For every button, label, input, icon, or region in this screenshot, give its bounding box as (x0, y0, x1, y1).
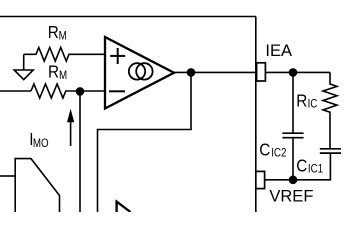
node C (IEA net junction) (289, 68, 298, 77)
label RM upper (48, 22, 67, 43)
node D (VREF net junction) (289, 176, 298, 185)
svg-text:IC1: IC1 (308, 163, 323, 176)
capacitor CIC2 (282, 133, 303, 138)
svg-text:IC: IC (308, 98, 318, 111)
IC boundary right edge (255, 17, 257, 213)
pin IEA (257, 63, 266, 81)
wire (inverting input from left edge) (0, 90, 31, 92)
current arrow IMO (67, 109, 74, 146)
svg-text:R: R (48, 22, 59, 42)
op-amp U2 (partial, bottom) (117, 202, 131, 212)
svg-text:VREF: VREF (269, 187, 313, 205)
wire (op-amp output) (174, 71, 256, 73)
svg-text:IEA: IEA (265, 42, 292, 60)
ground (14, 54, 33, 79)
svg-text:C: C (259, 139, 270, 159)
wire (CIC1 bottom lead to node D) (293, 154, 330, 180)
node A (junction of R2 / feedback) (76, 87, 85, 96)
op-amp U1 (gm amplifier) (105, 37, 174, 109)
label IMO (29, 129, 48, 150)
svg-text:M: M (59, 30, 67, 43)
wire (feedback: output down, left, down to lower op-amp) (98, 72, 192, 212)
wire (node C down to CIC2) (292, 72, 294, 133)
wire (CIC2 bottom lead) (292, 138, 294, 180)
svg-text:R: R (296, 90, 307, 110)
label CIC2 (259, 139, 286, 159)
label RM lower (48, 61, 67, 82)
svg-text:R: R (48, 61, 59, 81)
wire (left edge into DAC block) (0, 175, 15, 177)
wire (VREF pin to node D) (265, 179, 293, 181)
op-amp U1 minus input symbol (109, 90, 125, 92)
op-amp U1 current-source circles (129, 63, 153, 79)
resistor R2 (RM lower) (31, 84, 105, 98)
resistor RIC (323, 72, 337, 148)
DAC block corner (bottom-left partial shape) (15, 159, 59, 212)
capacitor CIC1 (320, 149, 341, 153)
svg-text:MO: MO (33, 137, 49, 150)
pin VREF (256, 171, 265, 188)
wire (IEA pin to RIC corner) (265, 71, 330, 73)
resistor R1 (RM upper) (24, 48, 105, 62)
wire (node A down to bottom edge) (79, 91, 81, 212)
op-amp U1 plus input symbol (110, 48, 125, 64)
svg-text:M: M (59, 69, 67, 82)
label CIC1 (296, 155, 323, 175)
IC boundary top edge (0, 16, 256, 18)
node B (output junction) (187, 68, 196, 77)
svg-text:IC2: IC2 (271, 147, 286, 160)
label RIC (296, 90, 317, 110)
svg-text:C: C (296, 155, 307, 175)
